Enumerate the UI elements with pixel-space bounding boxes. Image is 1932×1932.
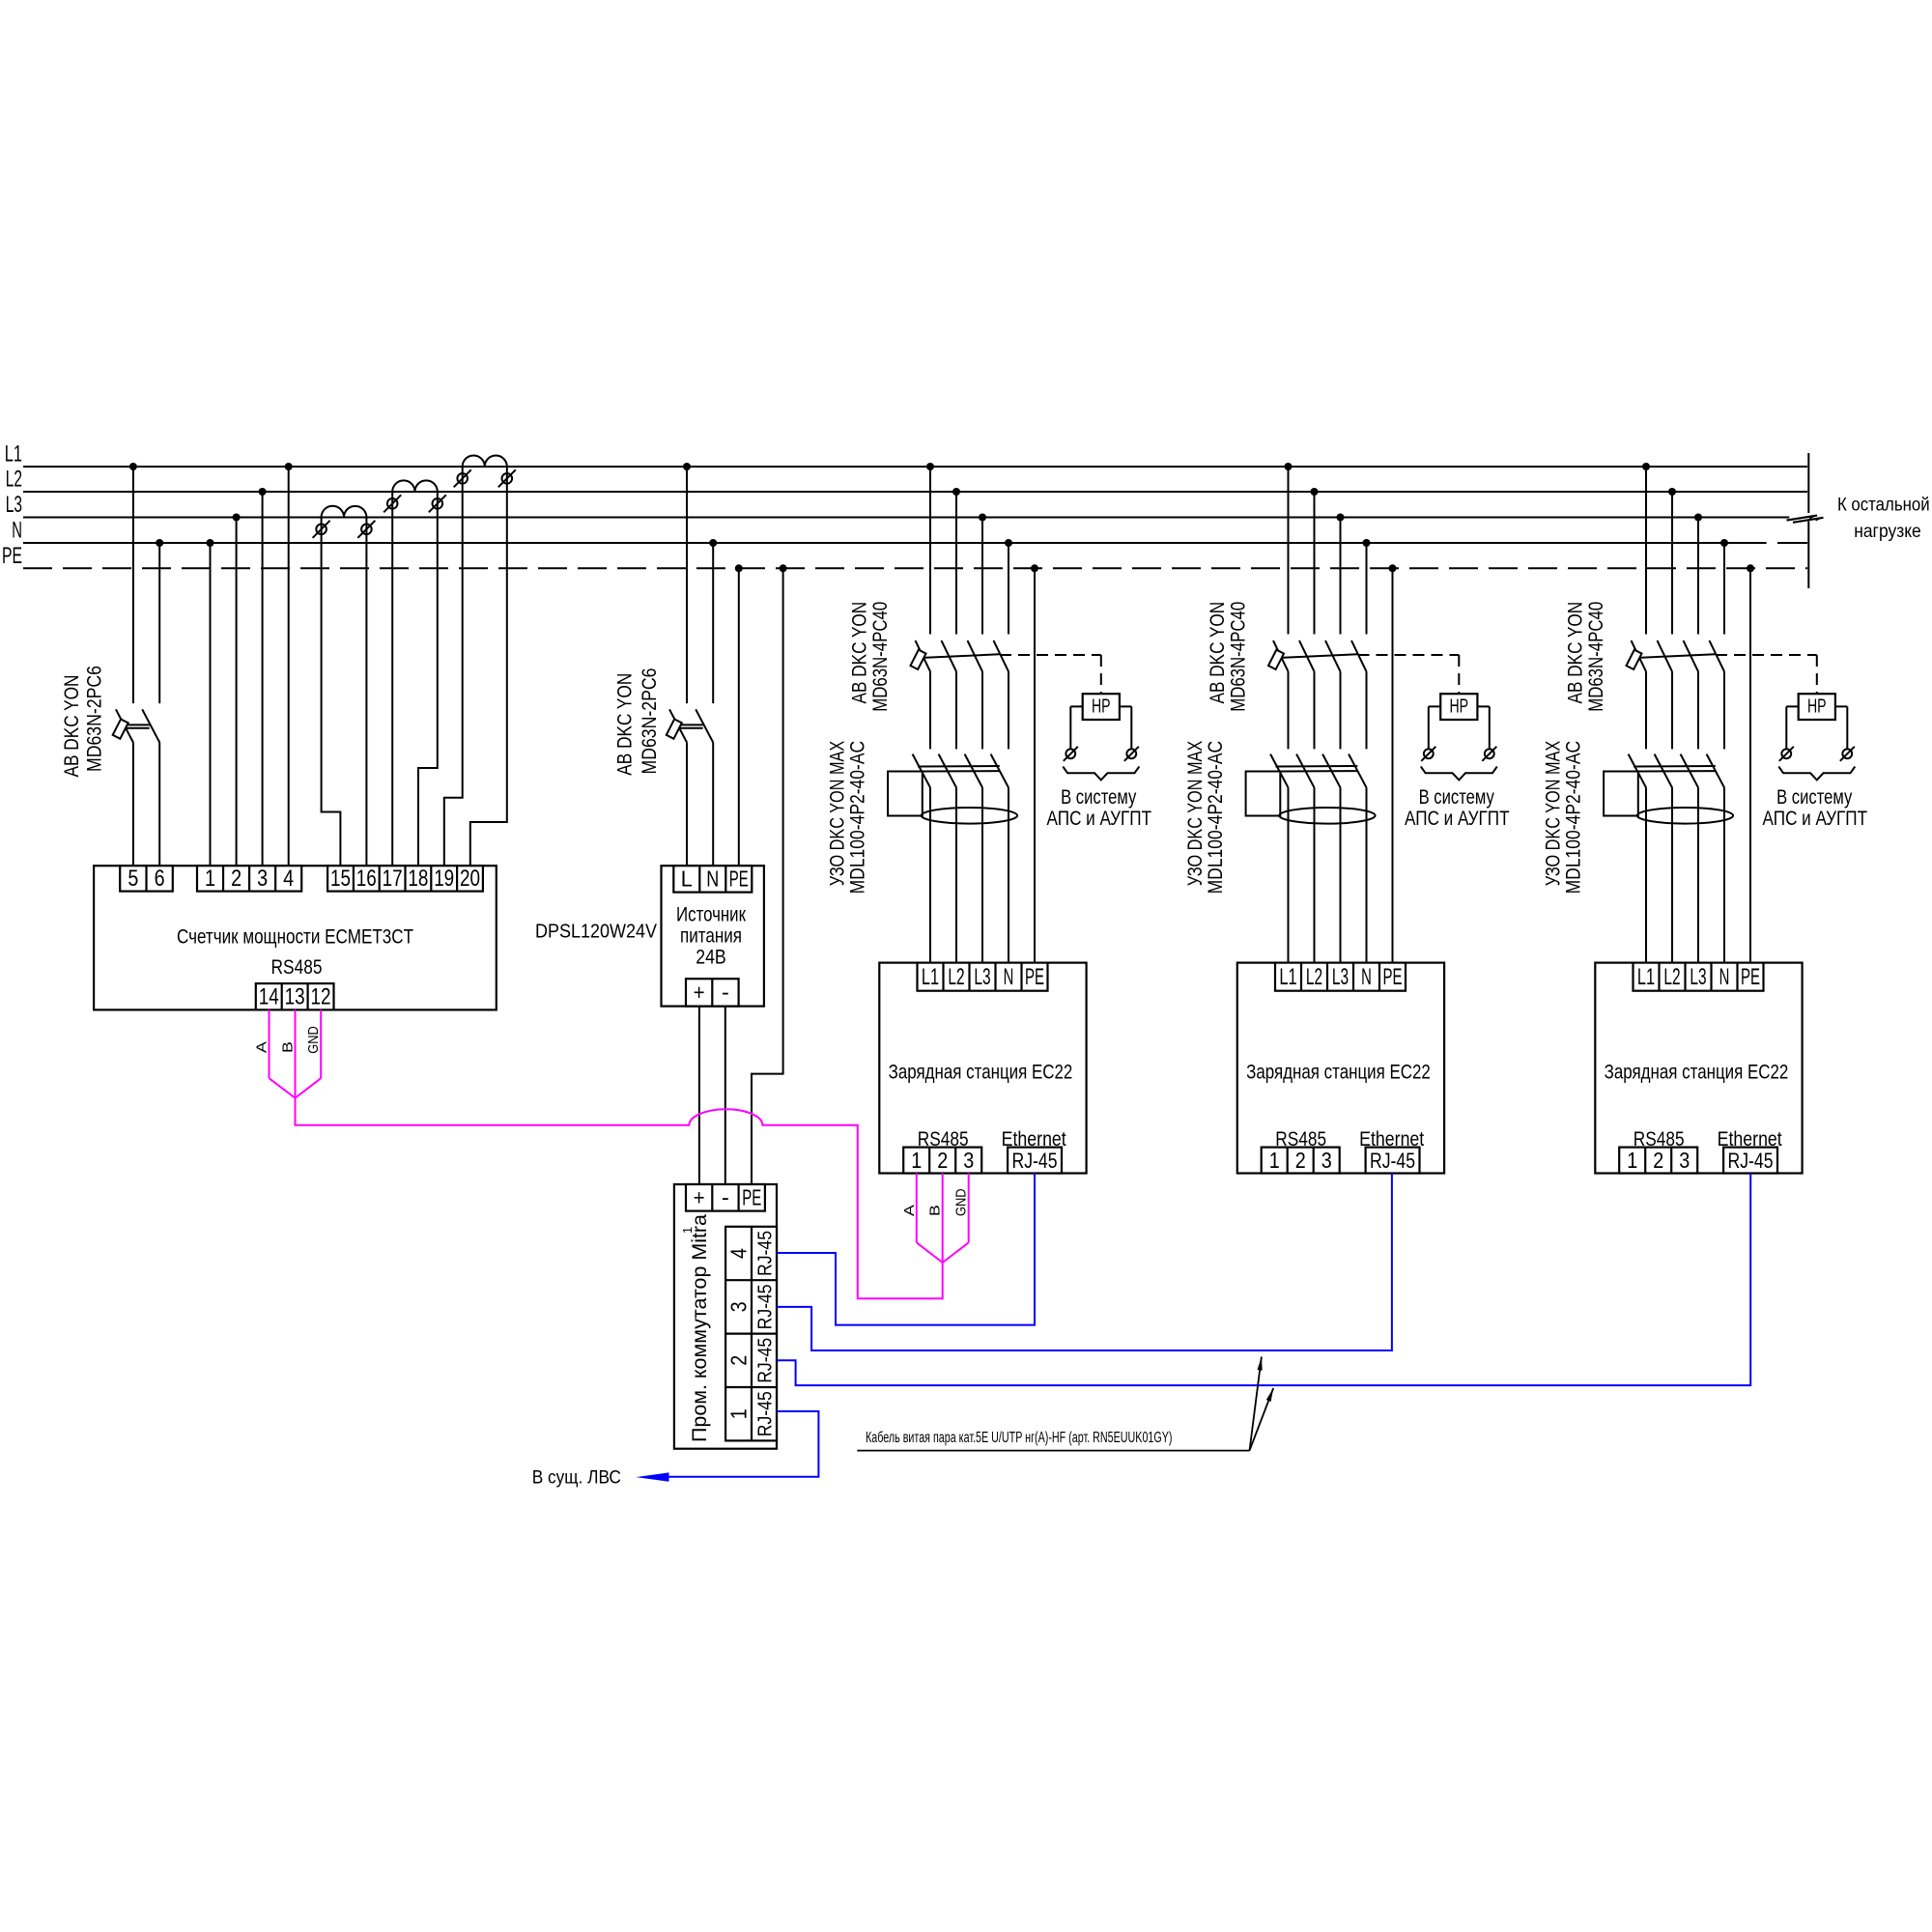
svg-text:Пром. коммутатор Mitra: Пром. коммутатор Mitra: [689, 1214, 711, 1442]
svg-text:L1: L1: [1637, 964, 1655, 990]
svg-text:3: 3: [725, 1301, 751, 1312]
svg-text:N: N: [1719, 964, 1730, 990]
svg-text:PE: PE: [742, 1185, 761, 1210]
svg-text:MDL100-4P2-40-AC: MDL100-4P2-40-AC: [1562, 741, 1584, 895]
svg-text:L2: L2: [948, 964, 964, 990]
svg-text:2: 2: [725, 1355, 751, 1366]
svg-text:L1: L1: [1279, 964, 1296, 990]
svg-text:НР: НР: [1807, 696, 1827, 718]
svg-text:MD63N-2PC6: MD63N-2PC6: [83, 666, 105, 772]
svg-text:Кабель витая пара кат.5E U/UTP: Кабель витая пара кат.5E U/UTP нг(А)-HF …: [866, 1430, 1173, 1446]
svg-text:3: 3: [1679, 1148, 1690, 1173]
svg-text:+: +: [694, 1185, 705, 1210]
svg-text:питания: питания: [680, 925, 742, 948]
svg-text:RJ-45: RJ-45: [1012, 1149, 1058, 1173]
svg-text:Зарядная станция EC22: Зарядная станция EC22: [1246, 1061, 1431, 1083]
svg-text:-: -: [722, 980, 729, 1005]
svg-text:N: N: [1361, 964, 1372, 990]
svg-text:15: 15: [330, 866, 351, 892]
svg-text:3: 3: [1321, 1148, 1332, 1173]
svg-text:В систему: В систему: [1776, 785, 1852, 809]
svg-text:1: 1: [1627, 1148, 1637, 1173]
svg-text:PE: PE: [729, 867, 749, 892]
svg-text:20: 20: [460, 866, 480, 892]
svg-text:19: 19: [434, 866, 454, 892]
svg-text:В систему: В систему: [1061, 785, 1136, 809]
svg-text:N: N: [706, 867, 719, 892]
svg-text:18: 18: [408, 866, 428, 892]
svg-text:АПС и АУГПТ: АПС и АУГПТ: [1047, 807, 1152, 830]
svg-text:L1: L1: [922, 964, 939, 990]
svg-text:N: N: [1004, 964, 1014, 990]
svg-text:MD63N-4PC40: MD63N-4PC40: [1585, 602, 1607, 712]
svg-text:1: 1: [680, 1227, 695, 1234]
svg-text:MD63N-4PC40: MD63N-4PC40: [1228, 602, 1250, 712]
svg-text:НР: НР: [1450, 696, 1469, 718]
svg-text:АПС и АУГПТ: АПС и АУГПТ: [1763, 807, 1868, 830]
svg-text:А: А: [254, 1041, 270, 1053]
svg-text:АПС и АУГПТ: АПС и АУГПТ: [1405, 807, 1510, 830]
svg-text:PE: PE: [1383, 964, 1403, 990]
svg-text:2: 2: [1295, 1148, 1306, 1173]
svg-text:GND: GND: [953, 1188, 970, 1216]
svg-text:АВ DKC YON: АВ DKC YON: [1564, 602, 1586, 704]
svg-text:4: 4: [283, 866, 294, 892]
svg-text:RJ-45: RJ-45: [755, 1391, 777, 1436]
svg-text:-: -: [722, 1185, 729, 1210]
svg-text:3: 3: [257, 866, 268, 892]
svg-text:АВ DKC YON: АВ DKC YON: [848, 602, 870, 704]
svg-text:L3: L3: [6, 492, 22, 518]
svg-text:MDL100-4P2-40-AC: MDL100-4P2-40-AC: [1205, 741, 1227, 895]
svg-text:нагрузке: нагрузке: [1854, 522, 1921, 542]
svg-text:АВ DKC YON: АВ DKC YON: [1207, 602, 1229, 704]
svg-text:MDL100-4P2-40-AC: MDL100-4P2-40-AC: [846, 741, 868, 895]
svg-text:В: В: [280, 1041, 297, 1053]
svg-text:PE: PE: [1741, 964, 1760, 990]
svg-text:N: N: [12, 518, 22, 544]
svg-text:1: 1: [205, 866, 215, 892]
svg-text:RJ-45: RJ-45: [755, 1338, 777, 1383]
svg-text:2: 2: [937, 1148, 948, 1173]
svg-text:L3: L3: [974, 964, 990, 990]
svg-text:24В: 24В: [696, 947, 726, 969]
svg-text:УЗО DKC YON MAX: УЗО DKC YON MAX: [1184, 741, 1207, 886]
svg-text:В систему: В систему: [1419, 785, 1494, 809]
svg-text:А: А: [901, 1205, 918, 1216]
svg-text:АВ DKC YON: АВ DKC YON: [61, 675, 83, 778]
svg-text:13: 13: [285, 984, 305, 1010]
svg-text:В сущ. ЛВС: В сущ. ЛВС: [532, 1468, 621, 1489]
svg-text:1: 1: [725, 1408, 751, 1419]
svg-text:4: 4: [725, 1248, 751, 1259]
svg-text:L: L: [681, 867, 693, 892]
svg-text:АВ DKC YON: АВ DKC YON: [613, 673, 636, 776]
svg-text:RJ-45: RJ-45: [755, 1231, 777, 1276]
svg-text:Зарядная станция EC22: Зарядная станция EC22: [1605, 1061, 1789, 1083]
svg-text:В: В: [927, 1205, 944, 1216]
svg-text:RJ-45: RJ-45: [1370, 1149, 1415, 1173]
svg-text:12: 12: [311, 984, 331, 1010]
svg-text:RS485: RS485: [271, 956, 323, 979]
svg-text:L2: L2: [6, 467, 22, 493]
svg-text:MD63N-2PC6: MD63N-2PC6: [639, 668, 661, 775]
svg-text:Счетчик мощности ECMET3CT: Счетчик мощности ECMET3CT: [177, 926, 413, 949]
svg-text:16: 16: [356, 866, 377, 892]
svg-text:3: 3: [963, 1148, 974, 1173]
svg-text:2: 2: [1653, 1148, 1663, 1173]
svg-text:GND: GND: [305, 1026, 322, 1054]
svg-text:2: 2: [231, 866, 241, 892]
svg-text:УЗО DKC YON MAX: УЗО DKC YON MAX: [1543, 741, 1565, 886]
svg-text:PE: PE: [1025, 964, 1044, 990]
svg-text:1: 1: [911, 1148, 922, 1173]
svg-text:MD63N-4PC40: MD63N-4PC40: [869, 602, 892, 712]
svg-text:14: 14: [259, 984, 279, 1010]
svg-text:L1: L1: [5, 441, 22, 468]
svg-text:L3: L3: [1690, 964, 1706, 990]
svg-text:RJ-45: RJ-45: [1728, 1149, 1774, 1173]
svg-text:Зарядная станция EC22: Зарядная станция EC22: [889, 1061, 1073, 1083]
svg-text:17: 17: [383, 866, 403, 892]
svg-text:L2: L2: [1306, 964, 1322, 990]
svg-text:5: 5: [128, 866, 138, 892]
svg-text:НР: НР: [1092, 696, 1111, 718]
svg-text:DPSL120W24V: DPSL120W24V: [535, 922, 658, 943]
svg-text:К остальной: К остальной: [1837, 496, 1930, 516]
svg-text:L2: L2: [1663, 964, 1680, 990]
svg-text:L3: L3: [1332, 964, 1349, 990]
svg-text:RJ-45: RJ-45: [755, 1284, 777, 1329]
svg-text:+: +: [694, 980, 705, 1005]
svg-text:1: 1: [1269, 1148, 1280, 1173]
svg-text:PE: PE: [2, 543, 22, 569]
svg-text:Источник: Источник: [676, 904, 747, 926]
svg-text:6: 6: [155, 866, 165, 892]
svg-text:УЗО DKC YON MAX: УЗО DKC YON MAX: [827, 741, 849, 886]
